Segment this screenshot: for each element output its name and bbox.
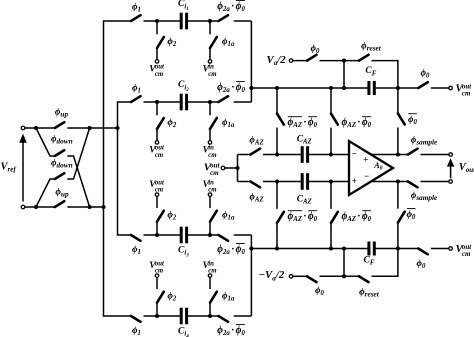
switch phi_down row2: [55, 150, 65, 156]
wire branch 3 2 lower: [156, 196, 158, 208]
Vout arrow: [450, 166, 452, 179]
junction bus A: [101, 205, 105, 209]
node top rail CF right: [396, 86, 400, 90]
wire branch 2 to summing vertical: [234, 101, 252, 103]
node top rail x344: [342, 86, 346, 90]
terminal Vcm in (branch 2): [208, 141, 212, 145]
wire opamp output (top): [371, 154, 408, 156]
wire vertical x331 lower (bottom): [330, 223, 332, 249]
svg-text:ϕ2a·ϕ0: ϕ2a·ϕ0: [217, 82, 245, 94]
terminal Va/2: [289, 59, 293, 63]
wire branch 2 1a upper: [209, 102, 211, 115]
node bottom rail x344: [342, 246, 346, 250]
Vref arrow: [22, 142, 24, 202]
wire vertical x277 lower (top): [276, 128, 278, 155]
svg-text:ϕreset: ϕreset: [361, 42, 382, 53]
wire vertical x331 lower (top): [330, 128, 332, 155]
switch phiAZ.nphi0 vertical top x331: [331, 114, 338, 125]
node top rail x277: [275, 86, 279, 90]
wire chopper row4 right: [67, 206, 89, 208]
terminal Vcm out (branch 1): [155, 60, 159, 64]
wire chopper row3 right to TR: [67, 128, 89, 179]
wire Vref top to node: [25, 127, 36, 129]
terminal Vcm out bottom right: [449, 247, 453, 251]
switch phiAZ (bottom): [251, 182, 261, 188]
wire branch 1 2 upper: [156, 21, 158, 34]
wire -Va/2 switch to reset switch: [320, 275, 360, 277]
terminal Vref bottom: [21, 205, 25, 209]
switch phi1a (branch 4): [210, 292, 217, 303]
switch phi_down row3: [55, 173, 65, 179]
wire branch 1 right segment: [187, 20, 219, 22]
wire feedback vertical upper (top): [397, 88, 399, 113]
node bottom rail x331: [329, 246, 333, 250]
wire chopper row4 left: [36, 206, 55, 208]
wire x344 down to top rail: [343, 61, 345, 88]
wire branch 1 2 lower: [156, 48, 158, 60]
wire branch 3 1a lower: [209, 196, 211, 208]
node summing top: [249, 86, 253, 90]
capacitor C_i2 (branch 2): [180, 94, 183, 111]
node top rail x331: [329, 86, 333, 90]
wire branch 4 1a lower: [209, 277, 211, 289]
svg-text:ϕ2a·ϕ0: ϕ2a·ϕ0: [217, 325, 245, 337]
wire reset to CF right node: [372, 61, 398, 88]
node CAZ right (top): [329, 152, 333, 156]
wire reset to CF right node (bottom): [372, 249, 398, 277]
wire branch 4 left segment: [144, 315, 182, 317]
node CAZ left (top): [275, 152, 279, 156]
op-amp A0: [349, 141, 393, 195]
wire CAZ to opamp (bottom): [308, 181, 349, 183]
node output (bottom): [396, 179, 400, 183]
wire branch 1 1a upper: [209, 21, 211, 34]
svg-text:ϕreset: ϕreset: [359, 288, 380, 299]
capacitor CF top: [367, 81, 370, 95]
wire -Va/2 to switch: [293, 275, 307, 277]
terminal Vcm out mid: [221, 166, 225, 170]
wire Va/2 to switch: [293, 60, 307, 62]
node CAZ right (bottom): [329, 179, 333, 183]
switch phi_reset top: [359, 55, 369, 61]
wire bus B (branches 2,3): [118, 102, 132, 235]
wire bottom rail: [251, 248, 369, 250]
capacitor C_i1 (branch 1): [180, 13, 183, 30]
svg-text:ϕ2a·ϕ0: ϕ2a·ϕ0: [217, 244, 245, 256]
capacitor CF bottom: [367, 242, 370, 256]
svg-text:ϕsample: ϕsample: [411, 136, 438, 147]
svg-text:ϕdown: ϕdown: [51, 135, 73, 146]
wire Vref bottom to node: [25, 206, 36, 208]
wire branch 4 2 lower: [156, 277, 158, 289]
wire chopper row2 right to BR: [67, 156, 89, 207]
wire feedback vertical lower (bottom): [397, 223, 399, 249]
node summing bottom: [249, 246, 253, 250]
node branch 2 b: [208, 100, 212, 104]
switch phi1 (branch 4): [131, 316, 141, 322]
wire top rail: [251, 87, 369, 89]
switch nphi0 vertical top: [398, 113, 405, 124]
node branch 2 a: [155, 100, 159, 104]
wire chopper row1 right: [67, 127, 89, 129]
node branch 3 a: [155, 233, 159, 237]
wire branch 1 to summing vertical: [234, 20, 252, 22]
switch phi2 (branch 3): [157, 211, 164, 222]
switch phi0 top rail: [418, 82, 428, 88]
wire vertical x277 lower (bottom): [276, 223, 278, 249]
switch phi2a.phi0bar (branch 3): [219, 235, 229, 241]
switch phi2 (branch 2): [157, 118, 164, 129]
wire mid terminal to bracket: [225, 167, 238, 169]
switch phi2a.phi0bar (branch 1): [219, 15, 229, 21]
terminal Vref top: [21, 126, 25, 130]
node CAZ left (bottom): [275, 179, 279, 183]
wire vertical x331 upper (top): [330, 88, 332, 114]
svg-text:ϕsample: ϕsample: [411, 191, 438, 202]
wire branch 4 1a upper: [209, 303, 211, 316]
wire branch 3 2 upper: [156, 222, 158, 235]
node Va/2 row x344: [342, 59, 346, 63]
wire vertical x277 upper (bottom): [276, 182, 278, 209]
switch nphi0 vertical bottom: [398, 212, 405, 223]
wire chopper BL to row3: [36, 179, 55, 207]
terminal Vcm in (branch 1): [208, 60, 212, 64]
wire summing vertical top: [250, 21, 252, 102]
switch phi1a (branch 1): [210, 37, 217, 48]
terminal Vcm in (branch 3): [208, 193, 212, 197]
wire bus A (branches 1,4): [104, 21, 132, 316]
wire phiAZ to CAZ (bottom): [263, 181, 302, 183]
wire branch 4 right segment: [187, 315, 219, 317]
switch nphiAZ.nphi0 vertical top x277: [277, 114, 284, 125]
wire branch 1 left segment: [144, 20, 182, 22]
terminal Vout (top): [449, 153, 453, 157]
node branch 3 b: [208, 233, 212, 237]
node -Va/2 row x344: [342, 274, 346, 278]
wire bracket to phiAZ switch (top): [238, 154, 251, 156]
switch phi1 (branch 3): [131, 235, 141, 241]
svg-text:ϕup: ϕup: [55, 108, 69, 119]
wire mid bracket vertical: [237, 155, 239, 182]
switch phi2 (branch 1): [157, 37, 164, 48]
wire branch 3 to summing vertical: [234, 234, 252, 236]
capacitor C_i3 (branch 3): [180, 227, 183, 244]
wire branch 2 2 upper: [156, 102, 158, 115]
switch phi1 (branch 1): [131, 15, 141, 21]
switch phi2a.phi0bar (branch 2): [219, 96, 229, 102]
svg-text:ϕdown: ϕdown: [51, 159, 73, 170]
wire branch 4 to summing vertical: [234, 315, 252, 317]
switch phi0 -Va/2 row: [307, 276, 317, 282]
switch phi_up row4: [55, 201, 65, 207]
switch phi_sample (top): [408, 149, 418, 155]
wire vertical x331 upper (bottom): [330, 182, 332, 209]
node bottom rail x277: [275, 246, 279, 250]
wire branch 3 right segment: [187, 234, 219, 236]
wire vertical x277 upper (top): [276, 88, 278, 114]
wire Va/2 switch to reset switch: [320, 60, 360, 62]
terminal Vcm out (branch 3): [155, 193, 159, 197]
capacitor CAZ (bottom): [301, 173, 304, 190]
svg-text:−Va/2: −Va/2: [259, 269, 285, 282]
wire branch 2 right segment: [187, 101, 219, 103]
node branch 4 a: [155, 314, 159, 318]
wire branch 1 1a lower: [209, 48, 211, 60]
wire feedback vertical upper (bottom): [397, 182, 399, 209]
terminal -Va/2: [289, 275, 293, 279]
node chopper BR: [88, 205, 92, 209]
wire bottom rail right of CF: [374, 248, 418, 250]
wire opamp output (bottom): [371, 181, 408, 183]
node branch 1 a: [155, 19, 159, 23]
capacitor CAZ (top): [301, 146, 304, 163]
wire TR to bus B: [90, 127, 118, 129]
terminal Vcm out top right: [449, 86, 453, 90]
svg-text:ϕ2a·ϕ0: ϕ2a·ϕ0: [217, 1, 245, 13]
wire phiAZ to CAZ (top): [263, 154, 302, 156]
switch phiAZ.nphi0 vertical bottom x331: [331, 212, 338, 223]
svg-text:Va/2: Va/2: [267, 54, 287, 67]
wire CAZ to opamp (top): [308, 154, 349, 156]
node output (top): [396, 152, 400, 156]
wire to Vcm bottom right terminal: [431, 248, 449, 250]
node branch 1 b: [208, 19, 212, 23]
wire x344 up to bottom rail: [343, 249, 345, 277]
switch phi0 Va/2 row: [307, 55, 317, 61]
wire chopper TL to row2: [36, 128, 55, 156]
switch phi0 bottom rail: [418, 249, 428, 255]
wire to output terminal (top): [421, 154, 449, 156]
wire branch 2 1a lower: [209, 129, 211, 141]
node chopper BL: [34, 205, 38, 209]
node chopper TL: [34, 126, 38, 130]
wire bracket to phiAZ switch (bottom): [238, 181, 251, 183]
node mid bracket: [235, 166, 239, 170]
switch phi_reset bottom: [359, 276, 369, 282]
junction bus B: [115, 126, 119, 130]
wire BR to bus A: [90, 206, 104, 208]
wire branch 2 2 lower: [156, 129, 158, 141]
switch phi_sample (bottom): [408, 182, 418, 188]
wire branch 3 left segment: [144, 234, 182, 236]
wire to output terminal (bottom): [421, 181, 449, 183]
switch phi_up row1: [55, 122, 65, 128]
wire branch 3 1a upper: [209, 222, 211, 235]
switch phiAZ (top): [251, 149, 261, 155]
wire summing vertical bottom: [250, 235, 252, 316]
switch phi1a (branch 2): [210, 118, 217, 129]
wire branch 2 left segment: [144, 101, 182, 103]
wire branch 4 2 upper: [156, 303, 158, 316]
wire feedback vertical lower (top): [397, 127, 399, 154]
terminal Vout (bottom): [449, 180, 453, 184]
node branch 4 b: [208, 314, 212, 318]
wire chopper row1 left: [36, 127, 55, 129]
svg-text:ϕup: ϕup: [55, 188, 69, 199]
switch phi1a (branch 3): [210, 211, 217, 222]
switch phi2a.phi0bar (branch 4): [219, 316, 229, 322]
node chopper TR: [88, 126, 92, 130]
terminal Vcm in (branch 4): [208, 274, 212, 278]
node bottom rail CF right: [396, 246, 400, 250]
terminal Vcm out (branch 2): [155, 141, 159, 145]
wire top rail right of CF: [374, 87, 418, 89]
switch phi1 (branch 2): [131, 96, 141, 102]
capacitor C_i4 (branch 4): [180, 308, 183, 325]
switch phi2 (branch 4): [157, 292, 164, 303]
switch nphiAZ.nphi0 vertical bottom x277: [277, 212, 284, 223]
terminal Vcm out (branch 4): [155, 274, 159, 278]
wire to Vcm top right terminal: [431, 87, 449, 89]
